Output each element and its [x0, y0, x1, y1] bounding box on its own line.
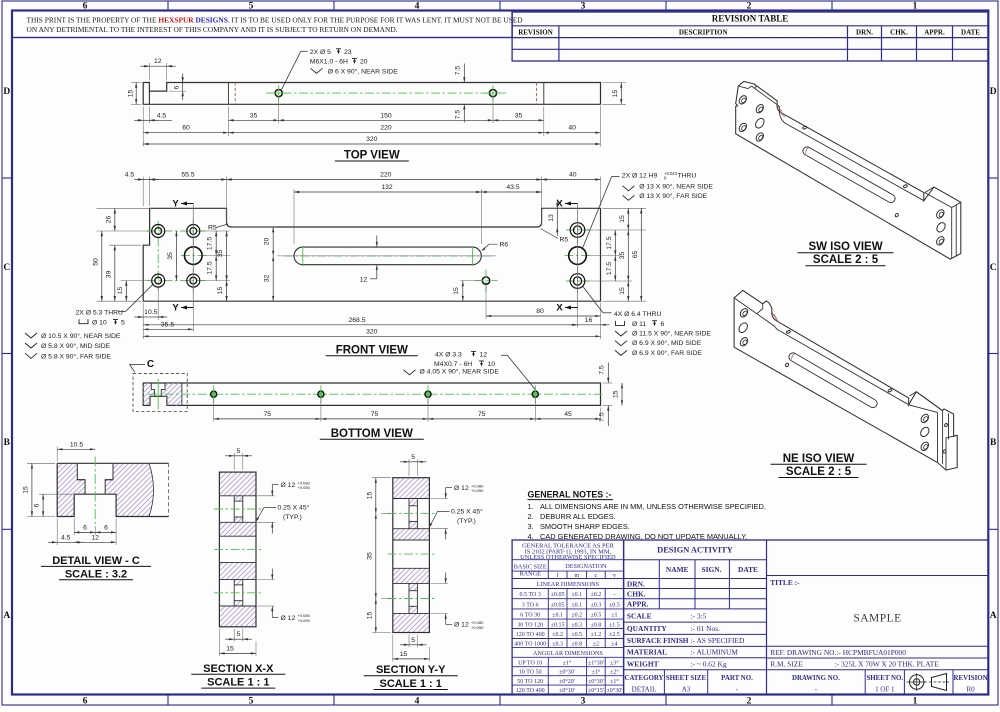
- svg-text:±0°30': ±0°30': [588, 678, 604, 685]
- svg-text:ON ANY DETRIMENTAL TO THE INTE: ON ANY DETRIMENTAL TO THE INTEREST OF TH…: [27, 25, 398, 34]
- svg-text:SHEET NO.: SHEET NO.: [866, 675, 903, 682]
- detail C label leader: [130, 363, 146, 365]
- svg-text:3 TO 6: 3 TO 6: [522, 602, 539, 608]
- svg-text:±1.2: ±1.2: [591, 632, 602, 638]
- svg-text:SMOOTH SHARP EDGES.: SMOOTH SHARP EDGES.: [540, 522, 630, 531]
- svg-text:APPR.: APPR.: [924, 29, 945, 37]
- svg-text:2: 2: [747, 696, 752, 706]
- svg-text:150: 150: [380, 112, 392, 119]
- svg-text:SCALE: SCALE: [627, 611, 652, 620]
- svg-text:±0°20': ±0°20': [559, 678, 575, 685]
- svg-text:±0°30': ±0°30': [607, 687, 623, 694]
- svg-text:±1°30': ±1°30': [588, 659, 604, 666]
- svg-text:Ø 12: Ø 12: [454, 622, 469, 629]
- svg-text:220: 220: [380, 172, 392, 179]
- detail C dim 10.5: [56, 447, 58, 462]
- svg-text:±0.5: ±0.5: [609, 602, 620, 608]
- front callout 6.4: [583, 286, 604, 313]
- front bottom dims 268.5/16: [577, 311, 579, 328]
- svg-text:BOTTOM VIEW: BOTTOM VIEW: [331, 428, 413, 440]
- svg-text:Ø 5.8 X 90°, FAR SIDE: Ø 5.8 X 90°, FAR SIDE: [41, 352, 111, 360]
- svg-text:4.5: 4.5: [61, 534, 71, 541]
- front view right hole column centerlines: [577, 218, 579, 294]
- svg-text:5: 5: [411, 637, 415, 644]
- svg-text:3: 3: [581, 696, 586, 706]
- svg-text:132: 132: [381, 184, 393, 191]
- svg-text::- AS SPECIFIED: :- AS SPECIFIED: [691, 636, 745, 645]
- section X-X dim 15 bottom: [218, 629, 220, 656]
- svg-text:12: 12: [154, 58, 162, 65]
- front bottom dim 320: [143, 335, 600, 337]
- svg-text:±4: ±4: [611, 641, 617, 647]
- svg-text:±1.5: ±1.5: [609, 622, 620, 628]
- svg-text:±0.3: ±0.3: [571, 622, 582, 628]
- section Y-Y left dims 15/35/15: [372, 477, 391, 479]
- svg-text::- 325L X 70W X 20 THK. PLATE: :- 325L X 70W X 20 THK. PLATE: [835, 660, 940, 669]
- svg-text:RANGE: RANGE: [520, 571, 542, 578]
- svg-text:Ø 13 X 90°, NEAR SIDE: Ø 13 X 90°, NEAR SIDE: [639, 182, 713, 190]
- svg-text:0.25 X 45°: 0.25 X 45°: [451, 508, 483, 516]
- svg-text:15: 15: [117, 287, 124, 295]
- svg-text:Y: Y: [172, 199, 179, 210]
- front callout 12H9: [582, 176, 612, 249]
- svg-text:7.5: 7.5: [455, 110, 462, 120]
- svg-text:3.: 3.: [528, 522, 534, 531]
- svg-text:15: 15: [453, 287, 460, 295]
- detail C dim 15: [27, 462, 55, 464]
- svg-text:APPR.: APPR.: [627, 600, 649, 609]
- svg-text:15: 15: [612, 90, 619, 98]
- NE iso step accents: [772, 311, 777, 319]
- svg-text:(TYP.): (TYP.): [457, 518, 476, 525]
- svg-text:X: X: [556, 303, 563, 314]
- svg-text:120 TO 400: 120 TO 400: [516, 632, 545, 638]
- svg-text:Ø 4.05 X 90°, NEAR SIDE: Ø 4.05 X 90°, NEAR SIDE: [420, 368, 500, 376]
- top view hole 2: [489, 90, 496, 97]
- top view dim 7.5 upper: [463, 64, 465, 83]
- front left dims 26/50/39/15: [97, 207, 152, 209]
- top view dim 12: [148, 63, 150, 81]
- svg-text:DESIGN ACTIVITY: DESIGN ACTIVITY: [657, 546, 733, 555]
- svg-text:15: 15: [612, 390, 619, 398]
- front bottom dims 10.5/35.5: [157, 288, 159, 320]
- svg-text:15: 15: [400, 651, 408, 658]
- svg-text:C: C: [3, 263, 10, 273]
- svg-text:Ø 10.5 X 90°, NEAR SIDE: Ø 10.5 X 90°, NEAR SIDE: [41, 332, 121, 340]
- svg-text:+0.050: +0.050: [471, 488, 484, 493]
- top view hidden edge right: [536, 83, 538, 105]
- svg-text:A: A: [990, 611, 997, 621]
- svg-text:Ø 12: Ø 12: [281, 615, 296, 622]
- proprietary notice box: [12, 11, 512, 38]
- svg-text:7.5: 7.5: [599, 365, 606, 375]
- svg-text:TITLE :-: TITLE :-: [770, 578, 800, 587]
- NE iso silhouette: [734, 290, 957, 470]
- svg-text:1 OF 1: 1 OF 1: [875, 686, 895, 694]
- svg-text:Ø 10: Ø 10: [92, 320, 107, 327]
- svg-text:55.5: 55.5: [181, 172, 194, 179]
- svg-text:±0.3: ±0.3: [591, 602, 602, 608]
- svg-text:4.5: 4.5: [125, 172, 135, 179]
- NE iso small front hole: [785, 363, 789, 368]
- revision table: [512, 12, 988, 61]
- svg-text:THRU: THRU: [678, 172, 697, 179]
- svg-text:QUANTITY: QUANTITY: [627, 624, 667, 633]
- svg-text:SW ISO VIEW: SW ISO VIEW: [808, 241, 882, 253]
- bottom view centerline: [148, 393, 603, 395]
- section Y-Y dim 5 top: [408, 459, 410, 476]
- svg-text::- 01 Nos.: :- 01 Nos.: [691, 624, 721, 633]
- svg-text:35: 35: [515, 112, 523, 119]
- svg-text:TOP VIEW: TOP VIEW: [344, 150, 400, 162]
- svg-text:35: 35: [250, 112, 258, 119]
- svg-text:75: 75: [371, 411, 379, 418]
- svg-text:DESIGNATION: DESIGNATION: [565, 563, 607, 570]
- svg-text:THIS PRINT IS THE PROPERTY OF: THIS PRINT IS THE PROPERTY OF THE HEXSPU…: [27, 15, 524, 24]
- SW iso step accents: [777, 104, 782, 111]
- svg-text:Ø 11.5 X 90°, NEAR SIDE: Ø 11.5 X 90°, NEAR SIDE: [632, 329, 711, 337]
- section Y-Y dia12 top label: [431, 498, 449, 500]
- front bottom dims 80: [485, 285, 487, 319]
- svg-text:DATE: DATE: [961, 29, 980, 37]
- svg-text:50: 50: [92, 258, 99, 266]
- front view slot: [294, 247, 481, 265]
- svg-text:CHK.: CHK.: [627, 590, 646, 599]
- SW iso right block edges: [925, 187, 934, 193]
- front view small hole: [482, 277, 489, 284]
- detail C hatch region: [57, 463, 153, 516]
- svg-text:13: 13: [548, 214, 555, 222]
- svg-text:(TYP.): (TYP.): [283, 514, 302, 521]
- svg-text:16: 16: [585, 317, 593, 324]
- svg-text:20: 20: [264, 238, 271, 246]
- svg-text:Ø 5.8 X 90°, MID SIDE: Ø 5.8 X 90°, MID SIDE: [41, 342, 111, 350]
- SW iso silhouette: [736, 82, 961, 260]
- svg-text:±2: ±2: [593, 641, 599, 647]
- svg-text:35: 35: [217, 250, 224, 258]
- svg-text:5: 5: [237, 448, 241, 455]
- svg-text:DETAIL: DETAIL: [632, 686, 657, 694]
- NE iso slot: [789, 353, 877, 408]
- svg-text:2X Ø 12 H9: 2X Ø 12 H9: [622, 172, 658, 179]
- detail C counterbore edges: [77, 463, 113, 494]
- svg-text:±0°30': ±0°30': [559, 668, 575, 675]
- svg-text:DRN.: DRN.: [627, 579, 645, 588]
- svg-text:120 TO 400: 120 TO 400: [516, 688, 545, 694]
- top view hole 1: [275, 90, 282, 97]
- svg-text:M4X0.7 - 6H: M4X0.7 - 6H: [434, 361, 472, 368]
- svg-text:SCALE : 3.2: SCALE : 3.2: [65, 568, 127, 580]
- svg-text:5: 5: [237, 631, 241, 638]
- svg-text:65: 65: [632, 251, 639, 259]
- svg-text:-: -: [613, 592, 615, 598]
- svg-text:R5: R5: [208, 224, 217, 231]
- svg-text:±0.1: ±0.1: [571, 602, 582, 608]
- front dims 20/32: [232, 226, 277, 228]
- svg-text:CHK.: CHK.: [890, 29, 908, 37]
- svg-text:35: 35: [167, 252, 174, 260]
- section X-X middle hole: [219, 535, 256, 537]
- NE iso right end edges: [910, 392, 917, 396]
- svg-text:±0.15: ±0.15: [551, 622, 565, 628]
- svg-text:15: 15: [226, 645, 234, 652]
- svg-text:4: 4: [415, 696, 420, 706]
- svg-text:15: 15: [619, 287, 626, 295]
- front dim 13: [544, 207, 562, 209]
- NE iso back plate holes: [944, 423, 948, 427]
- svg-text:±0.05: ±0.05: [551, 592, 565, 598]
- front callout 5.3 counterbore: [126, 285, 153, 312]
- svg-text:15: 15: [366, 492, 373, 500]
- svg-text:400 TO 1000: 400 TO 1000: [514, 641, 546, 647]
- svg-text:R5: R5: [560, 236, 569, 243]
- svg-text:SCALE 1 : 1: SCALE 1 : 1: [207, 677, 269, 689]
- svg-text:±0.5: ±0.5: [591, 613, 602, 619]
- svg-text:NAME: NAME: [666, 565, 689, 574]
- SW iso front step and fillet: [755, 88, 788, 124]
- svg-text:FRONT VIEW: FRONT VIEW: [336, 344, 408, 356]
- bottom dims 75/75/75/45: [213, 398, 215, 422]
- svg-text:±0.8: ±0.8: [571, 641, 582, 647]
- svg-text:10 TO 50: 10 TO 50: [519, 669, 542, 675]
- bottom view section inner edges: [151, 383, 165, 396]
- tolerance table: [512, 540, 624, 694]
- svg-text:32: 32: [264, 275, 271, 283]
- svg-text:DEBURR ALL EDGES.: DEBURR ALL EDGES.: [540, 512, 616, 521]
- svg-text:NE ISO VIEW: NE ISO VIEW: [783, 453, 855, 465]
- svg-text:Ø 6.9 X 90°, FAR SIDE: Ø 6.9 X 90°, FAR SIDE: [632, 349, 702, 357]
- svg-text:±3°: ±3°: [610, 659, 619, 666]
- front view left hole group centerlines: [157, 221, 159, 291]
- svg-text:6: 6: [173, 85, 180, 89]
- svg-text:±0.1: ±0.1: [571, 592, 582, 598]
- svg-text:4.5: 4.5: [157, 112, 167, 119]
- svg-text:Ø 12: Ø 12: [281, 482, 296, 489]
- svg-text:Ø 13 X 90°, FAR SIDE: Ø 13 X 90°, FAR SIDE: [639, 192, 708, 200]
- section X-X hole edges top: [219, 495, 256, 497]
- svg-text:12: 12: [91, 534, 99, 541]
- svg-text:7.5: 7.5: [599, 412, 606, 422]
- svg-text:12: 12: [360, 276, 368, 283]
- NE iso front step and fillet: [757, 314, 781, 332]
- svg-text:REF. DRAWING NO.:- HCPMBFUA01: REF. DRAWING NO.:- HCPMBFUA01P000: [770, 648, 906, 657]
- svg-text:+0.050: +0.050: [471, 625, 484, 630]
- section line Y-Y: [192, 204, 194, 311]
- top view seam left: [227, 83, 229, 105]
- svg-text:BASIC SIZE: BASIC SIZE: [514, 564, 547, 571]
- svg-text::- 3:5: :- 3:5: [691, 611, 707, 620]
- svg-text:±0.05: ±0.05: [551, 602, 565, 608]
- section X-X outline: [219, 472, 256, 627]
- svg-text:40: 40: [569, 172, 577, 179]
- section X-X hatch: [219, 472, 256, 627]
- svg-text:m: m: [574, 572, 579, 579]
- svg-text:Ø 11: Ø 11: [632, 321, 646, 328]
- svg-text:±0.2: ±0.2: [591, 592, 602, 598]
- svg-text:43.5: 43.5: [506, 184, 519, 191]
- NE iso right block holes: [920, 413, 931, 424]
- svg-text:WEIGHT: WEIGHT: [627, 660, 659, 669]
- svg-text:17.5: 17.5: [606, 262, 613, 275]
- svg-text:±1°: ±1°: [563, 659, 572, 666]
- svg-text:5: 5: [249, 696, 254, 706]
- svg-text:10: 10: [488, 361, 496, 368]
- svg-text:20: 20: [360, 59, 368, 66]
- svg-text:SECTION X-X: SECTION X-X: [203, 663, 274, 675]
- top view dims row1 4.5/35/150/35: [142, 106, 144, 146]
- svg-text:6: 6: [104, 524, 108, 531]
- section Y-Y dim 15 bottom: [392, 635, 394, 662]
- svg-text::- ALUMINUM: :- ALUMINUM: [691, 648, 739, 657]
- svg-text:60: 60: [182, 125, 190, 132]
- svg-text:6: 6: [83, 696, 88, 706]
- svg-text:±2.5: ±2.5: [609, 632, 620, 638]
- svg-text:220: 220: [380, 125, 392, 132]
- front view hole C1: [570, 223, 585, 238]
- svg-text:2.: 2.: [528, 512, 534, 521]
- svg-text:D: D: [990, 87, 997, 97]
- svg-text:ANGULAR DIMENSIONS: ANGULAR DIMENSIONS: [533, 650, 604, 657]
- svg-text:B: B: [4, 438, 11, 448]
- svg-text:±2°: ±2°: [610, 668, 619, 675]
- svg-text:320: 320: [366, 136, 378, 143]
- detail C outline: [57, 463, 168, 516]
- svg-text:Ø 6 X 90°, NEAR SIDE: Ø 6 X 90°, NEAR SIDE: [328, 67, 398, 75]
- svg-text:MATERIAL: MATERIAL: [627, 648, 667, 657]
- svg-text:±0°15': ±0°15': [588, 687, 604, 694]
- front dim 15 small hole: [461, 280, 482, 282]
- front top dims row1 4.5/55.5/220/40: [142, 177, 144, 207]
- svg-text:±0.8: ±0.8: [591, 622, 602, 628]
- top view tab edge: [148, 91, 150, 104]
- NE iso top face edges: [734, 298, 757, 314]
- svg-text:±0.2: ±0.2: [571, 613, 582, 619]
- svg-text:12: 12: [480, 352, 488, 359]
- section Y-Y hatch: [393, 478, 430, 633]
- svg-text:M6X1.0 - 6H: M6X1.0 - 6H: [310, 59, 348, 66]
- svg-text:50 TO 120: 50 TO 120: [517, 679, 543, 685]
- SW iso small front hole: [895, 213, 899, 218]
- svg-text:6: 6: [661, 321, 665, 328]
- front dim 12 slot: [376, 236, 378, 248]
- bottom view outline: [143, 383, 600, 405]
- svg-text:2X Ø 5.3 THRU: 2X Ø 5.3 THRU: [76, 310, 124, 317]
- svg-text:17.5: 17.5: [606, 236, 613, 249]
- svg-text:R.M. SIZE: R.M. SIZE: [770, 660, 803, 669]
- svg-text:±0.1: ±0.1: [552, 613, 563, 619]
- projection symbol: [910, 675, 924, 689]
- SW iso top face edges: [738, 86, 748, 89]
- svg-text:±1°: ±1°: [592, 668, 601, 675]
- front top dims row2 132/43.5: [293, 189, 295, 244]
- section Y-Y middle hole: [393, 539, 430, 541]
- svg-text:REVISION: REVISION: [518, 29, 553, 37]
- svg-text:c: c: [595, 572, 598, 579]
- svg-text:1: 1: [913, 2, 918, 12]
- svg-text:SHEET SIZE: SHEET SIZE: [666, 675, 707, 682]
- svg-text:5: 5: [121, 320, 125, 327]
- svg-text:UNLESS OTHERWISE SPECIFIED: UNLESS OTHERWISE SPECIFIED: [520, 554, 616, 561]
- svg-text:A3: A3: [682, 686, 691, 694]
- title block: [624, 540, 989, 694]
- svg-text:R0: R0: [967, 686, 976, 694]
- svg-text:15: 15: [128, 90, 135, 98]
- bottom right dims 7.5/15/7.5: [603, 382, 613, 384]
- svg-text:17.5: 17.5: [207, 261, 214, 274]
- svg-text:DRN.: DRN.: [856, 29, 873, 37]
- svg-text:75: 75: [478, 411, 486, 418]
- svg-text:30 TO 120: 30 TO 120: [517, 622, 543, 628]
- section X-X dia12 top label: [257, 495, 275, 497]
- NE iso bar front-top edge: [781, 332, 909, 405]
- svg-text:2X Ø 5: 2X Ø 5: [310, 49, 331, 56]
- svg-text:0.5 TO 3: 0.5 TO 3: [520, 592, 541, 598]
- svg-text:1: 1: [913, 696, 918, 706]
- bottom view holes: [211, 391, 217, 397]
- svg-text:35: 35: [619, 252, 626, 260]
- svg-text:SAMPLE: SAMPLE: [853, 613, 901, 625]
- bottom view local section hatch: [143, 383, 182, 405]
- detail C dashed right edge: [168, 463, 170, 516]
- front view hole C3: [570, 274, 585, 289]
- svg-text:GENERAL NOTES :-: GENERAL NOTES :-: [528, 489, 612, 499]
- svg-text:320: 320: [366, 328, 378, 335]
- svg-text:Ø 6.9 X 90°, MID SIDE: Ø 6.9 X 90°, MID SIDE: [632, 339, 702, 347]
- section Y-Y dia12 bottom label: [431, 582, 449, 584]
- svg-text:B: B: [990, 438, 997, 448]
- front view hole B1: [187, 225, 200, 238]
- svg-text:SCALE 1 : 1: SCALE 1 : 1: [380, 678, 442, 690]
- svg-text:SURFACE FINISH: SURFACE FINISH: [627, 636, 689, 645]
- svg-text:REVISION: REVISION: [954, 675, 988, 682]
- svg-text:40: 40: [568, 125, 576, 132]
- svg-text:±1°: ±1°: [610, 678, 619, 685]
- svg-text:Ø 12: Ø 12: [454, 485, 469, 492]
- svg-text:DESCRIPTION: DESCRIPTION: [679, 29, 728, 37]
- svg-text:4X Ø 6.4 THRU: 4X Ø 6.4 THRU: [614, 311, 662, 318]
- front view slot centerline: [284, 255, 494, 257]
- svg-text:DRAWING NO.: DRAWING NO.: [792, 675, 840, 682]
- detail C centerline: [94, 457, 96, 525]
- SW iso small top holes: [802, 126, 807, 130]
- detail C dashed box: [133, 373, 187, 411]
- section Y-Y hole edges: [393, 498, 430, 500]
- SW iso slot: [803, 147, 895, 203]
- svg-text:15: 15: [217, 287, 224, 295]
- svg-text:26: 26: [105, 216, 112, 224]
- front dim 35 mid: [175, 231, 177, 281]
- svg-text:6: 6: [83, 524, 87, 531]
- svg-text:SCALE 2 : 5: SCALE 2 : 5: [786, 466, 852, 478]
- front right dims 15/17.5/17.5/15/35/65: [603, 207, 647, 209]
- top view dims row2 60/220/40: [143, 132, 228, 134]
- svg-text:35: 35: [366, 552, 373, 560]
- svg-text:UP TO 10: UP TO 10: [518, 660, 542, 666]
- svg-text:C: C: [990, 263, 997, 273]
- svg-text:LINEAR DIMENSIONS: LINEAR DIMENSIONS: [537, 581, 600, 588]
- top view centerline: [266, 92, 506, 94]
- NE iso tab: [946, 435, 957, 470]
- SW iso left block holes: [738, 94, 748, 105]
- front view hole B2 big: [185, 247, 203, 265]
- svg-text:REVISION TABLE: REVISION TABLE: [712, 14, 788, 24]
- NE iso left block holes: [739, 307, 750, 318]
- svg-text:39: 39: [105, 271, 112, 279]
- svg-text:D: D: [3, 87, 10, 97]
- section X-X hatch squares near channels: [234, 496, 243, 501]
- svg-text:DETAIL VIEW - C: DETAIL VIEW - C: [52, 555, 140, 567]
- zone dividers left/right: [2, 177, 12, 179]
